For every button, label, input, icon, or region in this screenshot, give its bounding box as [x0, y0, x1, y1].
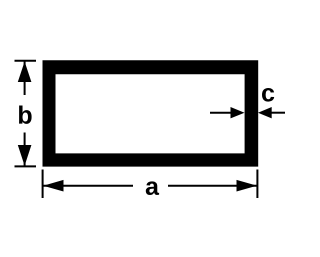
dimension a: right extension tick: [256, 170, 258, 199]
label a: [146, 181, 159, 195]
label c: [262, 88, 274, 102]
rectangular tube cross-section outline: [43, 60, 259, 166]
dimension b: top extension tick: [15, 60, 37, 62]
label b: [19, 105, 32, 123]
dimension b: upper leader line: [24, 62, 26, 96]
dimension a: right leader line: [168, 185, 257, 187]
dimension a: left extension tick: [42, 170, 44, 199]
dimension c: left arrowhead (points right at inner wall): [231, 107, 245, 118]
dimension a: left arrowhead: [43, 180, 63, 192]
dimension b: bottom extension tick: [15, 165, 37, 167]
dimension b: lower leader line: [24, 133, 26, 166]
dimension a: left leader line: [43, 185, 133, 187]
dimension b: up arrowhead: [18, 62, 32, 83]
dimension c: right arrowhead (points left at outer wall): [258, 107, 272, 118]
dimension b: down arrowhead: [18, 145, 32, 166]
dimension c: right leader line: [272, 112, 286, 114]
dimension c: left leader line: [210, 112, 231, 114]
dimension a: right arrowhead: [237, 180, 258, 192]
